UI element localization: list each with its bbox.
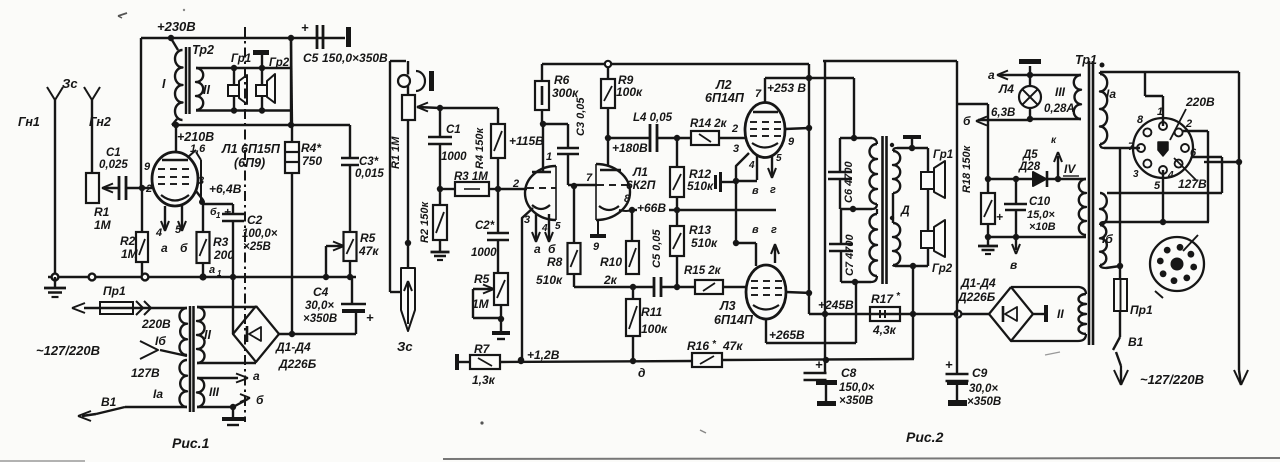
svg-text:7: 7 <box>586 172 593 184</box>
svg-text:R4 150к: R4 150к <box>474 127 486 169</box>
svg-text:6,3В: 6,3В <box>991 107 1015 119</box>
svg-text:II: II <box>1057 307 1064 321</box>
svg-text:С8: С8 <box>841 366 857 380</box>
svg-text:9: 9 <box>144 161 151 173</box>
svg-text:Зс: Зс <box>62 76 78 91</box>
svg-text:×350В: ×350В <box>839 395 873 407</box>
svg-text:6К2П: 6К2П <box>626 178 656 192</box>
svg-text:(6П9): (6П9) <box>234 156 265 170</box>
svg-text:д: д <box>638 366 645 380</box>
svg-text:Гр1: Гр1 <box>231 53 251 65</box>
svg-text:С4: С4 <box>313 285 329 299</box>
svg-text:R1: R1 <box>94 205 110 219</box>
svg-text:Д: Д <box>900 203 910 217</box>
svg-text:R5: R5 <box>474 272 490 286</box>
svg-text:С9: С9 <box>972 366 988 380</box>
svg-text:Д226Б: Д226Б <box>278 357 317 371</box>
svg-text:1: 1 <box>546 151 552 163</box>
svg-text:4: 4 <box>541 223 548 234</box>
svg-text:30,0×: 30,0× <box>969 383 998 395</box>
svg-text:4: 4 <box>748 160 755 171</box>
svg-text:R5: R5 <box>360 231 376 245</box>
svg-text:б: б <box>963 114 971 128</box>
svg-text:R15 2к: R15 2к <box>684 265 722 277</box>
svg-text:R11: R11 <box>641 305 662 319</box>
svg-text:г: г <box>770 184 776 196</box>
svg-text:Д226Б: Д226Б <box>957 290 996 304</box>
svg-text:2: 2 <box>731 123 738 135</box>
svg-text:3: 3 <box>1133 169 1139 180</box>
svg-text:Iб: Iб <box>1102 232 1113 246</box>
svg-text:9: 9 <box>788 136 795 148</box>
svg-text:5: 5 <box>1154 180 1161 192</box>
svg-text:750: 750 <box>302 154 322 168</box>
svg-text:IV: IV <box>1064 162 1076 176</box>
svg-text:а: а <box>534 242 541 256</box>
svg-text:2: 2 <box>145 183 152 195</box>
svg-text:а: а <box>161 241 168 255</box>
svg-text:С2: С2 <box>247 213 263 227</box>
svg-text:47к: 47к <box>358 244 379 258</box>
svg-text:R10: R10 <box>600 255 622 269</box>
svg-text:Рис.1: Рис.1 <box>172 435 210 451</box>
svg-text:в: в <box>752 224 759 236</box>
svg-text:R8: R8 <box>547 255 563 269</box>
svg-text:в: в <box>752 185 759 197</box>
svg-text:R3: R3 <box>213 235 229 249</box>
svg-text:R14 2к: R14 2к <box>690 118 728 130</box>
svg-text:+: + <box>815 357 823 372</box>
svg-text:Пр1: Пр1 <box>103 284 126 298</box>
svg-text:С6 4700: С6 4700 <box>843 161 855 203</box>
svg-text:Д5: Д5 <box>1022 149 1038 161</box>
svg-text:220В: 220В <box>141 317 171 331</box>
svg-text:510к: 510к <box>687 179 714 193</box>
svg-text:200: 200 <box>213 248 234 262</box>
svg-text:~127/220В: ~127/220В <box>1140 372 1204 387</box>
svg-text:5: 5 <box>175 224 182 236</box>
svg-text:100к: 100к <box>641 322 668 336</box>
svg-text:С5: С5 <box>303 51 319 65</box>
svg-text:R1 1М: R1 1М <box>390 136 402 169</box>
svg-text:Гр2: Гр2 <box>269 57 290 69</box>
svg-text:I: I <box>162 77 166 91</box>
svg-text:×350В: ×350В <box>967 396 1001 408</box>
svg-text:~127/220В: ~127/220В <box>36 343 100 358</box>
svg-text:R17: R17 <box>871 292 894 306</box>
svg-text:×10В: ×10В <box>1029 221 1056 233</box>
svg-text:II: II <box>203 83 210 97</box>
svg-text:127В: 127В <box>1178 177 1207 191</box>
svg-text:+230В: +230В <box>157 19 196 34</box>
svg-text:а: а <box>988 68 995 82</box>
svg-text:Л4: Л4 <box>998 82 1014 96</box>
svg-text:Гн2: Гн2 <box>89 115 111 129</box>
svg-text:47к: 47к <box>722 339 743 353</box>
svg-text:4,3к: 4,3к <box>872 323 897 337</box>
svg-text:С2*: С2* <box>475 220 495 232</box>
svg-text:9: 9 <box>593 241 600 253</box>
svg-text:+: + <box>996 210 1003 224</box>
svg-text:Пр1: Пр1 <box>1130 303 1153 317</box>
svg-text:1М: 1М <box>472 297 490 311</box>
svg-text:R2: R2 <box>120 234 136 248</box>
svg-text:1,6: 1,6 <box>190 143 206 155</box>
svg-text:150,0×350В: 150,0×350В <box>322 51 388 65</box>
svg-text:Л1 6П15П: Л1 6П15П <box>221 142 281 156</box>
svg-text:6П14П: 6П14П <box>705 91 745 105</box>
svg-text:а: а <box>209 264 215 276</box>
svg-text:Рис.2: Рис.2 <box>906 429 944 445</box>
svg-text:+265В: +265В <box>769 328 805 342</box>
svg-text:+: + <box>945 357 953 372</box>
svg-text:R13: R13 <box>689 223 711 237</box>
svg-text:R2 150к: R2 150к <box>419 201 431 243</box>
svg-text:С3*: С3* <box>359 156 379 168</box>
svg-text:3: 3 <box>733 143 739 155</box>
svg-text:1000: 1000 <box>471 247 497 259</box>
svg-text:×25В: ×25В <box>243 241 271 253</box>
svg-text:Гр1: Гр1 <box>933 149 953 161</box>
svg-text:5: 5 <box>776 153 782 164</box>
svg-text:+1,2В: +1,2В <box>527 348 560 362</box>
svg-text:8: 8 <box>624 193 631 205</box>
svg-text:2: 2 <box>1185 118 1192 130</box>
svg-text:R6: R6 <box>554 73 570 87</box>
svg-text:С7 4700: С7 4700 <box>844 234 856 276</box>
svg-text:б: б <box>256 393 264 407</box>
svg-text:1,3к: 1,3к <box>472 373 496 387</box>
svg-text:Д1-Д4: Д1-Д4 <box>275 340 311 354</box>
svg-text:1000: 1000 <box>441 151 467 163</box>
svg-text:1М: 1М <box>94 218 112 232</box>
svg-text:×350В: ×350В <box>303 313 337 325</box>
svg-text:Л1: Л1 <box>632 165 648 179</box>
svg-text:3: 3 <box>198 175 204 187</box>
svg-text:100,0×: 100,0× <box>242 228 278 240</box>
svg-text:5: 5 <box>555 221 561 232</box>
svg-text:+245В: +245В <box>818 298 854 312</box>
svg-text:Iа: Iа <box>153 387 163 401</box>
svg-text:С1: С1 <box>446 124 461 136</box>
svg-text:С10: С10 <box>1029 196 1051 208</box>
svg-text:7: 7 <box>755 88 762 100</box>
svg-text:0,015: 0,015 <box>355 168 384 180</box>
svg-text:510к: 510к <box>691 236 718 250</box>
svg-text:R4*: R4* <box>301 141 322 155</box>
svg-text:+: + <box>224 205 231 219</box>
svg-text:Гн1: Гн1 <box>18 115 40 129</box>
svg-text:+210В: +210В <box>177 130 214 144</box>
svg-text:R7: R7 <box>474 342 491 356</box>
svg-text:+66В: +66В <box>637 201 666 215</box>
svg-text:0,28А: 0,28А <box>1044 103 1075 115</box>
svg-text:б: б <box>180 241 188 255</box>
svg-text:+: + <box>301 20 309 35</box>
svg-text:С1: С1 <box>106 147 121 159</box>
svg-text:30,0×: 30,0× <box>305 300 334 312</box>
svg-text:+180В: +180В <box>612 141 648 155</box>
svg-text:127В: 127В <box>131 366 160 380</box>
svg-text:+253 В: +253 В <box>767 81 806 95</box>
svg-text:б: б <box>548 242 556 256</box>
svg-text:+6,4В: +6,4В <box>209 182 242 196</box>
svg-text:+: + <box>366 310 374 325</box>
svg-text:3: 3 <box>524 214 530 226</box>
svg-text:III: III <box>1055 85 1066 99</box>
svg-text:4: 4 <box>1167 170 1174 181</box>
svg-text:Д1-Д4: Д1-Д4 <box>960 276 996 290</box>
svg-text:Л2: Л2 <box>715 78 732 92</box>
svg-text:15,0×: 15,0× <box>1027 209 1055 221</box>
svg-text:а: а <box>253 369 260 383</box>
svg-text:II: II <box>204 328 211 342</box>
svg-text:С5 0,05: С5 0,05 <box>651 229 663 268</box>
svg-text:г: г <box>771 224 777 236</box>
svg-text:2к: 2к <box>603 273 618 287</box>
svg-text:100к: 100к <box>616 85 643 99</box>
svg-text:150,0×: 150,0× <box>839 382 875 394</box>
svg-text:L4 0,05: L4 0,05 <box>633 112 673 124</box>
svg-text:Зс: Зс <box>397 339 413 354</box>
svg-text:Iб: Iб <box>155 334 166 348</box>
svg-text:0,025: 0,025 <box>99 159 128 171</box>
svg-text:В1: В1 <box>101 395 117 409</box>
svg-text:1: 1 <box>216 211 221 220</box>
svg-text:Тр2: Тр2 <box>192 43 214 57</box>
svg-text:7: 7 <box>1128 141 1135 153</box>
svg-text:6П14П: 6П14П <box>714 313 754 327</box>
svg-text:R16: R16 <box>687 339 709 353</box>
svg-text:в: в <box>1010 258 1017 272</box>
svg-text:+115В: +115В <box>509 134 544 148</box>
svg-text:220В: 220В <box>1185 95 1215 109</box>
svg-text:8: 8 <box>1137 114 1144 126</box>
svg-text:510к: 510к <box>536 273 563 287</box>
svg-text:В1: В1 <box>1128 335 1144 349</box>
svg-text:III: III <box>209 385 220 399</box>
svg-text:1М: 1М <box>121 247 139 261</box>
svg-text:2: 2 <box>512 178 519 190</box>
svg-text:Д28: Д28 <box>1018 161 1041 173</box>
svg-text:Iа: Iа <box>1106 87 1116 101</box>
svg-text:R3 1М: R3 1М <box>454 171 488 183</box>
svg-text:4: 4 <box>155 227 162 239</box>
svg-text:R18 150к: R18 150к <box>961 144 973 193</box>
svg-text:Гр2: Гр2 <box>932 263 953 275</box>
svg-text:С3 0,05: С3 0,05 <box>575 97 587 136</box>
svg-text:Л3: Л3 <box>719 299 736 313</box>
